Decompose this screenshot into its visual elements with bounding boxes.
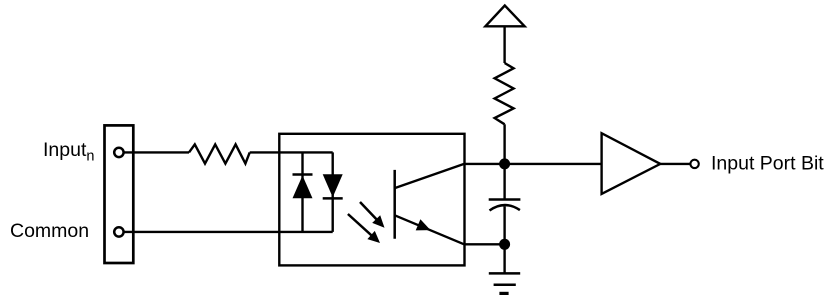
svg-text:Input Port Bit: Input Port Bit <box>711 152 824 174</box>
wire collector to node A <box>464 163 505 165</box>
diode rail right <box>332 152 334 232</box>
node A <box>499 158 510 169</box>
resistor R1 <box>189 144 250 163</box>
diode rail left <box>301 152 303 232</box>
wire node A to buffer <box>505 163 602 165</box>
wire capacitor to node B <box>503 207 505 245</box>
wire node A to capacitor <box>503 164 505 200</box>
power symbol <box>485 6 524 27</box>
terminal circle Common <box>114 227 123 236</box>
phototransistor Q1 <box>395 164 464 244</box>
diode D2 <box>323 174 343 198</box>
wire buffer to output terminal <box>660 163 690 165</box>
light emission arrow 2 <box>348 214 380 243</box>
wire input terminal to resistor <box>124 151 189 153</box>
diode D1 <box>293 175 313 199</box>
ground <box>489 273 520 293</box>
wire common to diode rails <box>124 231 333 233</box>
node B <box>499 239 510 250</box>
wire emitter to node B <box>464 243 505 245</box>
optocoupler U1 box <box>279 134 464 266</box>
wire resistor R2 to node A <box>503 124 505 164</box>
terminal circle output <box>690 160 698 168</box>
wire power to resistor R2 <box>503 26 505 63</box>
light emission arrow 1 <box>360 202 385 228</box>
connector J1 <box>105 125 134 263</box>
resistor R2 <box>495 63 514 124</box>
wire node B to ground <box>503 244 505 273</box>
buffer U2 <box>602 133 661 194</box>
svg-text:Common: Common <box>10 220 89 242</box>
wire resistor to diode rails <box>250 151 333 153</box>
capacitor C1 <box>489 200 521 211</box>
terminal circle Input_n <box>114 148 123 157</box>
